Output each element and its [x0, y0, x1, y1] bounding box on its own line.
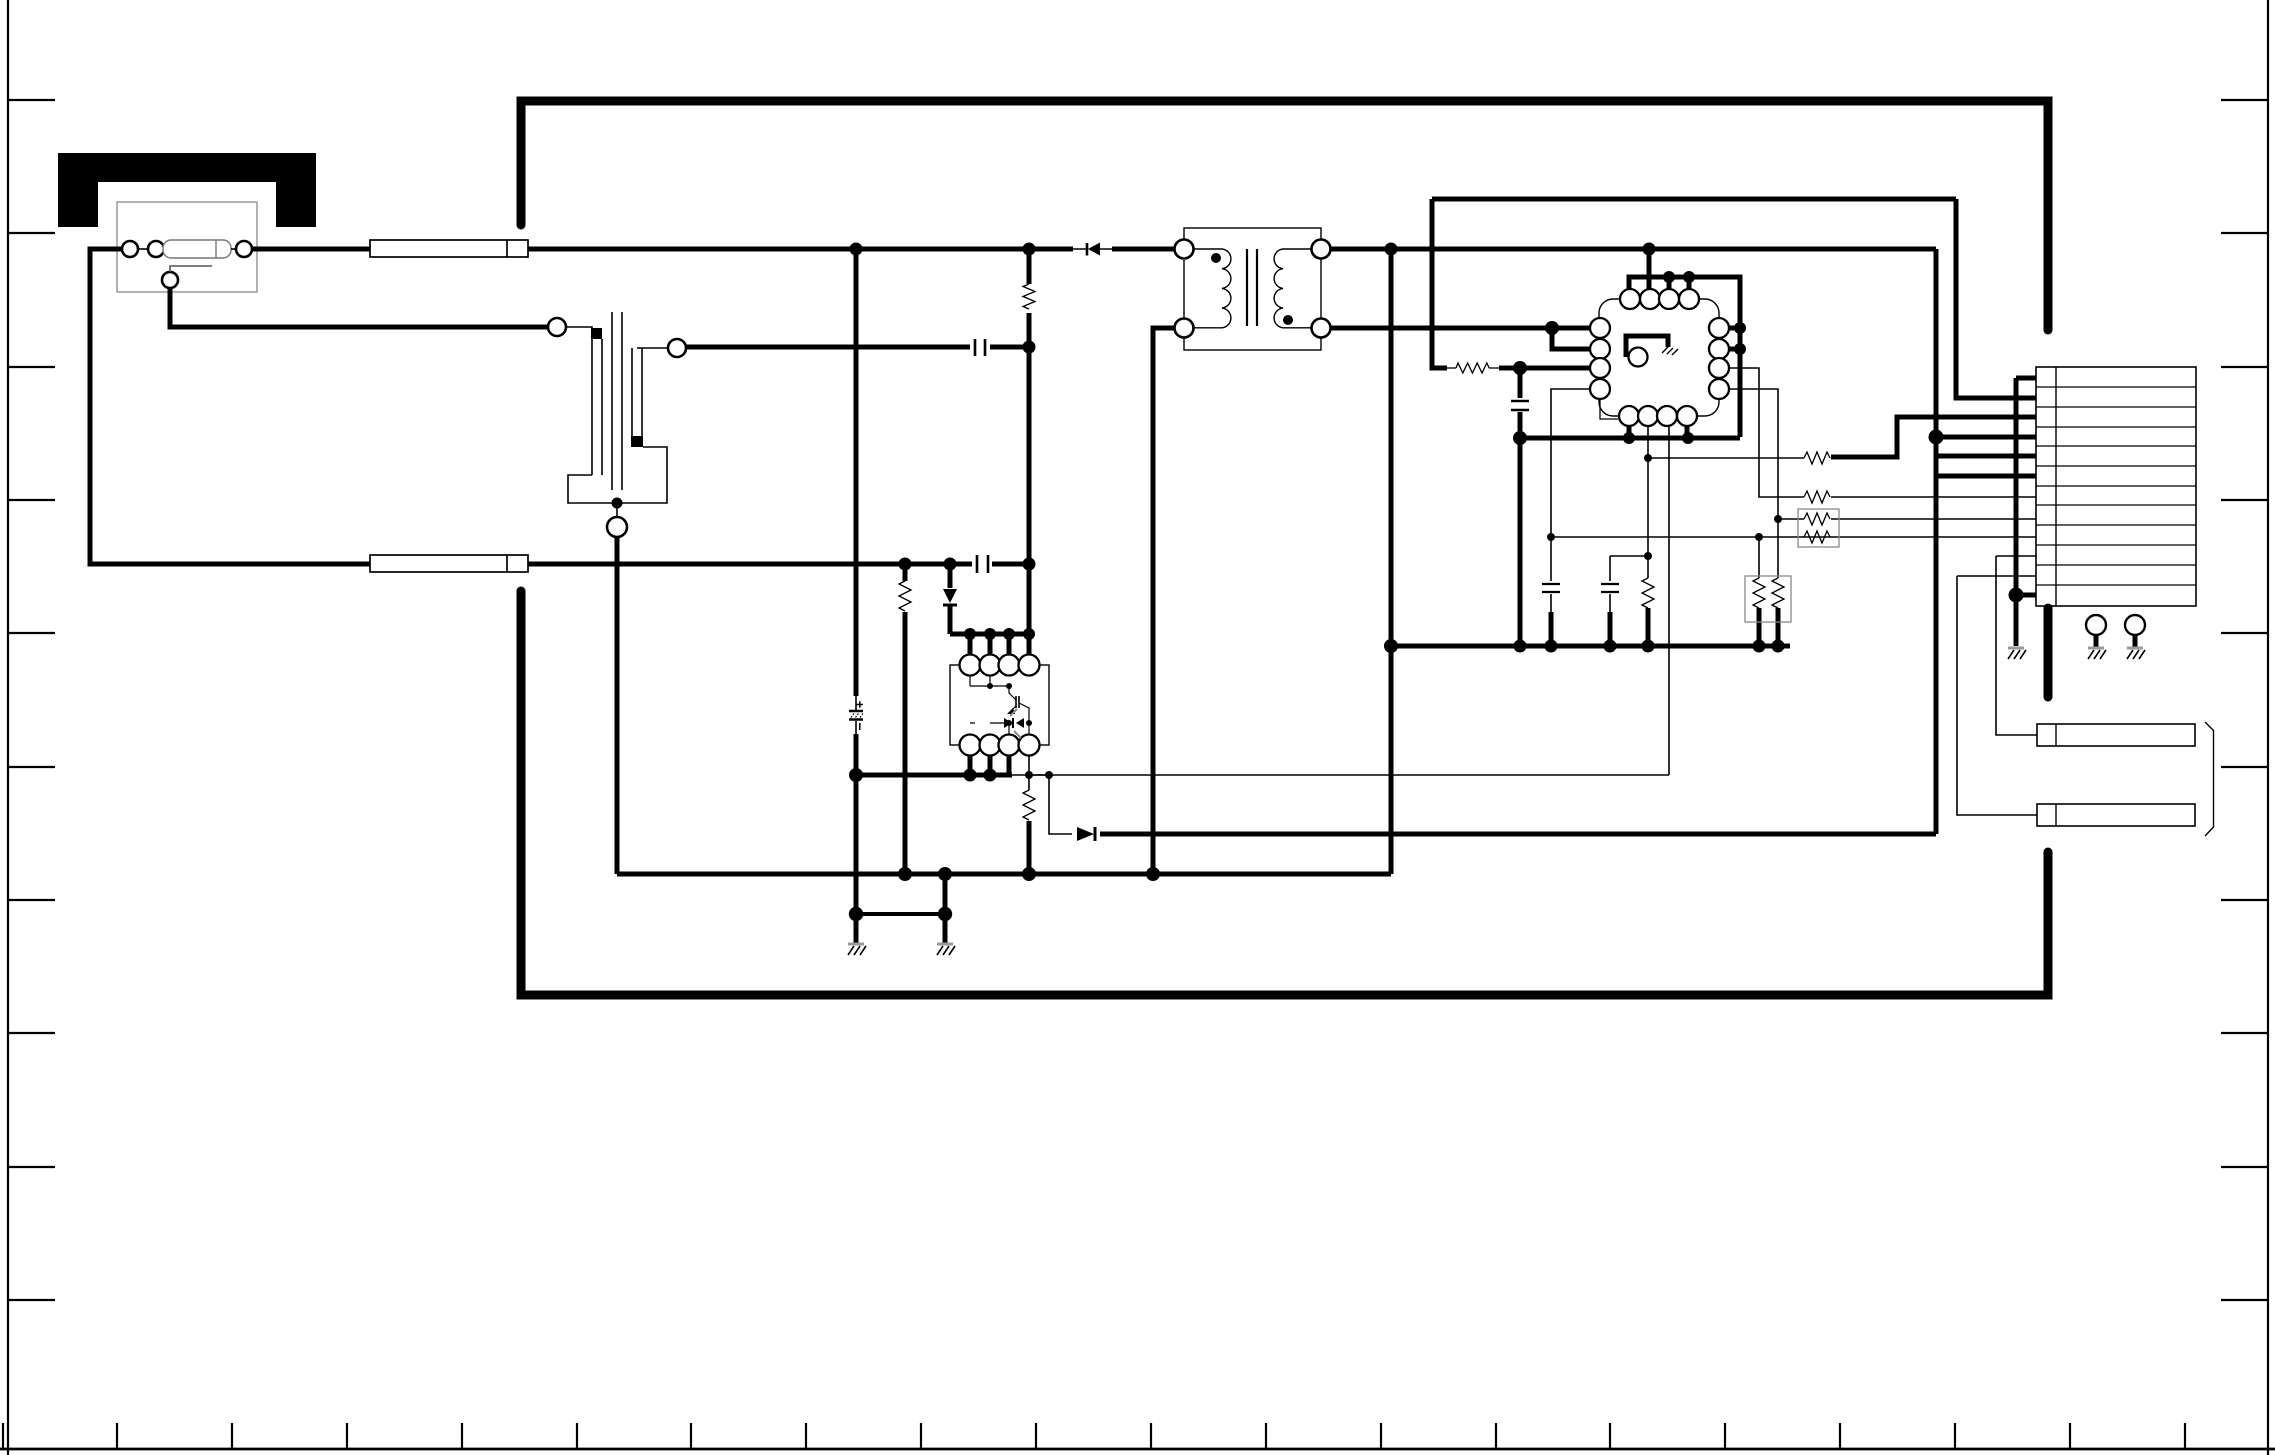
node x1391 y646 — [1384, 639, 1398, 653]
border right tick marks — [2221, 100, 2268, 1300]
transformer T1 terminal top-left — [1175, 240, 1194, 259]
wire x945 to ground link — [943, 874, 948, 944]
wire IC bottom bus y438 — [1520, 436, 1740, 441]
resistor R8 y497 — [1804, 491, 1830, 503]
node x856 y775 — [849, 768, 863, 782]
wire IC pin B3 down thin — [1668, 426, 1670, 775]
transformer T1 secondary winding — [1274, 249, 1311, 328]
U2 bottom pin stubs — [970, 755, 1009, 775]
wire main AC line y249 left part — [528, 247, 1073, 252]
test point TP2 ground stem — [2133, 635, 2138, 647]
wire U2 pin4 lead thin — [1012, 755, 1049, 775]
wire connector pin4 y437 — [1936, 435, 2036, 440]
IC U1 internal ground hatch — [1662, 347, 1678, 355]
brace right of jumpers — [2205, 722, 2214, 836]
wire ground-terminal to interlock switch — [170, 288, 548, 327]
wire connector pin10 y556 — [1996, 555, 2036, 557]
IC U1 internal bracket — [1626, 336, 1668, 357]
capacitor C4 x1520 — [1511, 368, 1529, 438]
node x1049 y775 — [1045, 771, 1053, 779]
wire — [231, 248, 236, 250]
wire AC neutral to fusible resistor — [252, 247, 370, 252]
node y646 x1759 — [1753, 640, 1766, 653]
wire internal link pin L4 to B1 — [1600, 399, 1618, 419]
wire — [138, 248, 148, 250]
wire to jumper J1 — [1996, 556, 2037, 735]
node y874 x1029 — [1022, 867, 1036, 881]
fuse terminal circle — [148, 241, 164, 257]
transformer T1 terminal bottom-left — [1175, 319, 1194, 338]
node junction on AC line at x1029 — [1023, 243, 1036, 256]
resistor R6 x1648 vertical — [1642, 578, 1654, 646]
diode D2 vertical x950 — [943, 564, 957, 634]
wire sense y458 thin with resistor R7 — [1648, 417, 2036, 464]
test point TP1 — [2086, 615, 2106, 635]
wire big right loop down x1936 — [1934, 249, 1939, 834]
capacitor C1 on y347 — [975, 339, 985, 356]
switch S1 contact square A — [591, 328, 602, 339]
node y646 x1520 — [1514, 640, 1527, 653]
resistor R9 y519 — [1778, 513, 2036, 525]
transformer T1 outline — [1184, 228, 1321, 350]
wire IC supply jog to pin L2 — [1552, 328, 1590, 349]
node y646 x1610 — [1604, 640, 1617, 653]
resistor R4 x1029 top — [1023, 284, 1035, 309]
chassis frame right short segment — [2044, 608, 2053, 697]
wire to jumper J2 — [1957, 576, 2037, 815]
node x1936 y437 — [1929, 430, 1944, 445]
capacitor C6 x1610 — [1601, 556, 1619, 646]
resistor R10 y537 — [1804, 531, 1830, 543]
node y646 x1648 — [1642, 640, 1655, 653]
node x1551 y537 — [1547, 533, 1555, 541]
test point TP1 ground stem — [2094, 635, 2099, 647]
U2 top pin circles — [960, 655, 1040, 676]
node y874 x1153 — [1146, 867, 1160, 881]
node junction on AC line at x856 — [850, 243, 863, 256]
node bottom bus x1688 — [1682, 432, 1694, 444]
transformer T1 terminal top-right — [1312, 240, 1331, 259]
border right ruler line — [2267, 0, 2269, 1455]
switch S1 enclosure outline — [568, 447, 667, 503]
transformer T1 core — [1247, 249, 1257, 326]
inlet terminal L — [122, 241, 138, 257]
fusible resistor FR2 — [370, 555, 528, 572]
wire connector pin11 y576 — [1957, 575, 2036, 577]
wire bus to ground — [2014, 595, 2019, 646]
ground symbol TP1 — [2088, 648, 2106, 659]
jumper J1 bar — [2037, 724, 2195, 746]
connector CN1 body — [2036, 367, 2196, 606]
wire vertical rail x856 upper — [854, 249, 859, 696]
AC inlet box outline — [117, 202, 257, 292]
switch S1 actuator bars — [612, 312, 622, 490]
resistor R3 x1029 vertical — [1023, 775, 1035, 874]
node y874 x945 — [938, 867, 952, 881]
wire return line y834 to diode — [1100, 832, 1936, 837]
U2 bottom pin circles — [960, 735, 1040, 756]
node right rail y328 — [1734, 322, 1746, 334]
node top bus x1689 — [1683, 271, 1695, 283]
border left ruler line — [7, 0, 9, 1455]
resistor pair box vertical — [1745, 576, 1791, 622]
wire IC top bus y277 — [1629, 277, 1740, 437]
opto top pin stubs — [970, 634, 1009, 655]
wire AC to IC pin T2 — [1647, 249, 1652, 289]
inlet terminal N — [236, 241, 252, 257]
IC top pin stubs — [1669, 277, 1689, 289]
switch S1 contact lead A — [566, 327, 592, 331]
switch S1 terminal B — [668, 339, 686, 357]
logo block top-left — [58, 153, 316, 227]
node y646 x1778 — [1772, 640, 1785, 653]
IC U1 bottom pins — [1619, 406, 1697, 426]
connector ground bus x2016 — [2014, 378, 2019, 595]
ground symbol TP2 — [2127, 648, 2145, 659]
wire y497 to connector — [1831, 496, 2036, 498]
resistor pair box horizontal — [1798, 509, 1839, 547]
node bottom bus x970 — [964, 769, 977, 782]
IC U1 internal circle — [1629, 348, 1648, 367]
transformer T1 secondary polarity dot — [1283, 315, 1293, 325]
switch S1 terminal C — [607, 517, 627, 537]
switch S1 plunger A — [592, 339, 602, 475]
transformer T1 primary polarity dot — [1211, 253, 1221, 263]
wire secondary-left leg x1153 — [1153, 328, 1174, 874]
node x2016 y595 — [2009, 588, 2024, 603]
capacitor C3 electrolytic x856 — [849, 701, 864, 730]
switch S1 contact lead B — [637, 347, 668, 349]
ground symbol x856 — [848, 944, 866, 955]
node opto top bus x1029 — [1023, 628, 1035, 640]
border left tick marks — [8, 100, 55, 1300]
hybrid regulator U2 outline — [950, 665, 1049, 745]
U2 internal wiring — [970, 675, 1029, 734]
resistor R11 x1759 vertical in box — [1753, 537, 1765, 646]
resistor R2 chain x905 — [899, 564, 911, 874]
wire IC pin L4 thin — [1551, 389, 1590, 537]
wire secondary-right to IC — [1331, 326, 1590, 331]
node junction y564 x905 — [899, 558, 912, 571]
connector CN1 row lines — [2036, 387, 2196, 585]
chassis frame bottom loop — [521, 591, 2048, 995]
IC right pin stubs to rail — [1729, 328, 1740, 349]
node bottom bus x990 — [984, 769, 997, 782]
wire startup top y199 — [1432, 197, 1956, 202]
wire AC live left leg — [90, 249, 370, 564]
IC U1 right pins — [1709, 318, 1729, 399]
node opto top bus x990 — [984, 628, 996, 640]
border bottom ruler line — [0, 1448, 2275, 1451]
node bottom bus x1520 — [1513, 431, 1527, 445]
wire connector pin1 from bus corner — [2016, 376, 2036, 381]
resistor R12 x1778 vertical in box — [1772, 519, 1784, 646]
diode D1 (pointing left) — [1073, 243, 1112, 256]
wire connector pin6 y476 — [1936, 474, 2036, 479]
wire startup left leg x1432 — [1432, 199, 1447, 368]
node y646 x1551 — [1545, 640, 1558, 653]
node junction y564 x950 — [944, 558, 957, 571]
wire IC pin B2 down thin — [1647, 426, 1649, 578]
wire feedback bus y646 — [1391, 644, 1790, 649]
node x1648 y556 — [1644, 552, 1652, 560]
wire connector pin12 y595 — [2016, 593, 2036, 598]
node bottom bus x1629 — [1623, 432, 1635, 444]
wire opto top bus — [950, 632, 1029, 637]
wire IC pin R3 thin — [1729, 368, 1804, 497]
wire rail x1029 vertical middle — [1027, 249, 1032, 655]
node junction y347 x1029 — [1023, 341, 1036, 354]
inlet ground terminal — [162, 272, 178, 288]
wire C6 top link to x1648 — [1610, 555, 1648, 557]
inlet ground stub — [170, 266, 212, 272]
U2 internal transistor/LED symbols — [987, 683, 1032, 738]
node junction on AC line at x1391 — [1385, 243, 1398, 256]
node opto top bus x970 — [964, 628, 976, 640]
node x1759 y537 — [1755, 533, 1763, 541]
switch S1 terminal A — [548, 318, 566, 336]
resistor R5 horizontal — [1447, 363, 1499, 373]
wire primary ground bus y874 — [617, 872, 1391, 877]
border bottom tick marks — [3, 1423, 2185, 1449]
capacitor C5 x1551 — [1542, 537, 1560, 646]
wire stub to terminal C — [616, 508, 618, 517]
node x945 y914 — [938, 907, 952, 921]
ground symbol x945 — [937, 944, 955, 955]
jumper J2 bar — [2037, 804, 2195, 826]
wire main AC line right of transformer — [1331, 247, 1936, 252]
IC U1 body outline — [1599, 299, 1719, 416]
wire AC second line y564 — [528, 562, 1029, 567]
node x1552 y328 — [1545, 321, 1559, 335]
fuse F1 body — [163, 240, 231, 258]
node x856 y914 — [849, 907, 863, 921]
wire thin down to diode D3 — [1049, 775, 1072, 834]
node on switch enclosure — [612, 498, 623, 509]
wire opto bottom bus y775 — [856, 773, 1012, 778]
test point TP2 — [2125, 615, 2145, 635]
wire rail x1391 — [1389, 249, 1394, 874]
diode D3 (pointing right) — [1077, 827, 1095, 841]
IC bottom pin stubs — [1629, 426, 1687, 438]
IC U1 top pins — [1620, 289, 1699, 309]
node top bus x1669 — [1663, 271, 1675, 283]
node x1648 y458 — [1644, 454, 1652, 462]
switch S1 contact square B — [631, 436, 643, 447]
wire feedback thin y775 to IC — [1029, 774, 1669, 776]
wire vertical rail x856 lower — [855, 721, 857, 734]
switch S1 plunger B — [632, 348, 642, 437]
wire startup right leg x1956 — [1956, 199, 2036, 398]
transformer T1 terminal bottom-right — [1312, 319, 1331, 338]
wire switch output y347 — [686, 345, 1029, 350]
wire IC pin R4 thin — [1729, 389, 1778, 519]
fusible resistor FR1 — [370, 240, 528, 257]
wire x1520 to bus — [1518, 438, 1523, 646]
transformer T1 primary winding — [1194, 249, 1231, 328]
wire main AC line to transformer — [1112, 247, 1174, 252]
wire connector pin2 y398 — [1956, 396, 2036, 401]
node x1520 y368 — [1513, 361, 1527, 375]
node x1778 y519 — [1774, 515, 1782, 523]
node junction y564 x1029 — [1023, 558, 1036, 571]
ground symbol x2016 — [2008, 648, 2026, 659]
node x1029 y775 — [1025, 771, 1033, 779]
wire switch down leg x617 — [615, 537, 620, 874]
wire link y914 — [856, 912, 945, 916]
connector CN1 inner column line — [2055, 367, 2057, 606]
capacitor C2 on y564 line — [977, 555, 988, 573]
wire sense y537 thin — [1551, 536, 2036, 538]
node y874 x905 — [898, 867, 912, 881]
wire resistor to node — [1499, 366, 1520, 371]
wire connector pin5 y456 — [1936, 454, 2036, 459]
wire node to IC pin L3 — [1520, 366, 1590, 371]
node junction on AC line at x1649 — [1643, 243, 1656, 256]
node right rail y349 — [1734, 343, 1746, 355]
IC U1 left pins — [1590, 318, 1610, 399]
chassis frame top and upper sides (thick box) — [521, 101, 2048, 330]
node opto top bus x1009 — [1003, 628, 1015, 640]
